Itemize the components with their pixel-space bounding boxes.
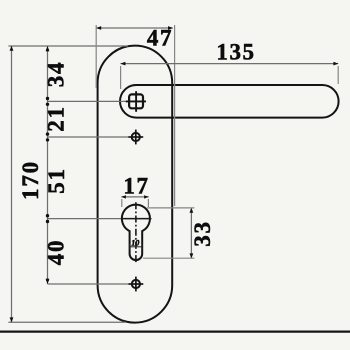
svg-text:47: 47: [147, 26, 173, 51]
dim 135 ext line left: [120, 66, 122, 89]
bottom sill line: [0, 331, 350, 333]
top screw cross: [135, 130, 137, 145]
ext line plate bottom (170 end): [8, 321, 125, 323]
chain arrows at handle centre: [46, 97, 49, 100]
dim 17 arrow right: [144, 195, 149, 198]
backplate outline: [98, 46, 173, 323]
dim 47 ext line right: [174, 25, 176, 206]
dim 47 ext line left: [95, 25, 97, 88]
dim 33 arrow bottom: [190, 253, 194, 258]
spindle cross vertical: [135, 91, 137, 112]
dim 135 arrow left: [120, 62, 125, 66]
ext line cylinder centre (51/40 boundary): [48, 218, 152, 220]
dim 170 line: [11, 46, 13, 322]
ext line handle centre (34/21 boundary): [48, 100, 127, 102]
dim 17 ext lines: [121, 199, 123, 207]
ext line top screw centre (21/51 boundary): [48, 136, 129, 138]
keyway width dim 10: [129, 246, 143, 248]
svg-text:10: 10: [131, 238, 139, 247]
dim 33 ext line bottom: [143, 257, 194, 259]
spindle square: [129, 94, 143, 108]
spindle cross horizontal: [126, 100, 146, 102]
ext line plate top (for 170 / chain): [8, 45, 128, 47]
dim 135 arrow right: [333, 62, 338, 66]
svg-text:34: 34: [44, 61, 69, 88]
dim 17 line: [121, 196, 148, 198]
svg-text:40: 40: [44, 239, 69, 266]
svg-text:170: 170: [18, 160, 43, 200]
ext line bottom screw centre (40 end): [48, 283, 129, 285]
dim 47 arrow left: [96, 26, 101, 30]
bottom screw cross: [135, 277, 137, 292]
dim 17 arrow left: [121, 195, 126, 198]
svg-text:33: 33: [190, 220, 215, 247]
chain arrow at plate top: [46, 46, 50, 51]
dim 33 ext line top: [147, 207, 194, 209]
chain dim line: [47, 46, 49, 284]
svg-text:51: 51: [44, 167, 69, 194]
bottom screw hole: [132, 280, 140, 288]
dim 47 line: [96, 27, 172, 29]
svg-text:17: 17: [123, 174, 149, 199]
chain arrow at bottom screw: [46, 279, 50, 284]
top screw hole: [132, 133, 140, 141]
lever handle outline: [120, 85, 339, 118]
chain arrows at top screw: [46, 132, 49, 135]
svg-text:135: 135: [216, 40, 255, 65]
dim 170 arrow top: [10, 46, 14, 51]
dim 170 arrow bottom: [10, 317, 14, 322]
dim 135 line: [121, 63, 339, 65]
chain arrows at cylinder centre: [46, 214, 49, 217]
cylinder vertical centreline: [135, 202, 137, 263]
cylinder hole (euro profile): [122, 205, 150, 260]
svg-text:21: 21: [44, 105, 69, 132]
cylinder horizontal diameter line: [121, 218, 150, 220]
dim 33 line: [190, 208, 192, 258]
dim 33 arrow top: [190, 208, 194, 213]
dim 47 arrow right: [168, 26, 173, 30]
dim 135 ext line right: [337, 66, 339, 84]
